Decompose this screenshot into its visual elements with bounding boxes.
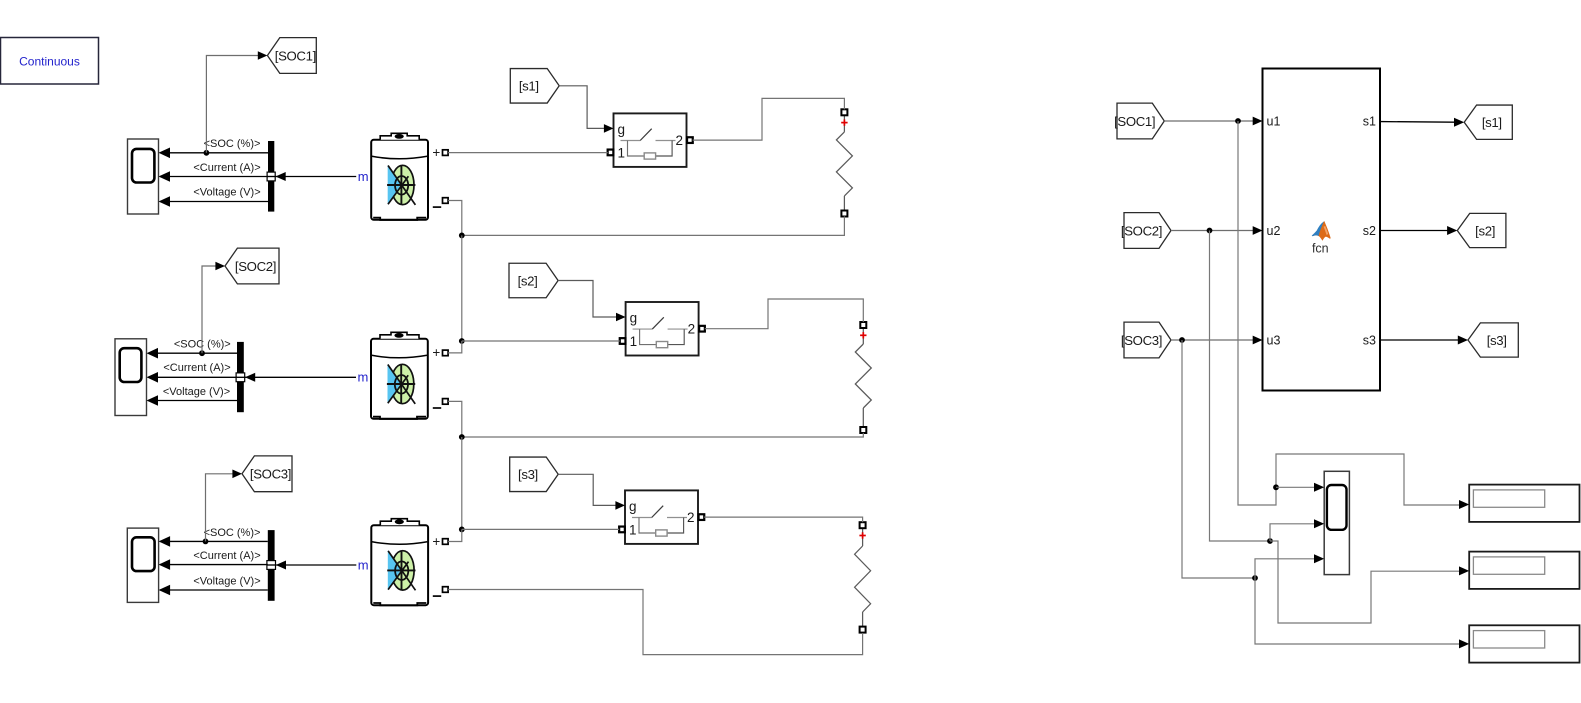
- junction on [SOC3] wire: [1179, 337, 1185, 343]
- port + (resistor R1 top): [841, 109, 847, 115]
- goto tag [SOC1]: [267, 38, 316, 74]
- wire: Battery2 - -> node C: [448, 401, 462, 437]
- scope Scope3: [127, 528, 158, 602]
- port + (resistor R2 top): [860, 322, 866, 328]
- scope Scope2: [115, 339, 147, 416]
- svg-text:<Current (A)>: <Current (A)>: [193, 550, 260, 562]
- junction: tap on SOC wire of group 3: [203, 539, 209, 545]
- svg-text:m: m: [358, 557, 369, 572]
- signal label <SOC (%)> on Scope2 in1: [174, 338, 231, 350]
- scope Scope4 (bottom right): [1324, 471, 1349, 574]
- wire: node F -> Scope4 in3: [1255, 554, 1324, 578]
- svg-text:[SOC3]: [SOC3]: [250, 467, 291, 482]
- pin s1 (fcn output 1): [1363, 115, 1376, 129]
- junction node B: [459, 338, 465, 344]
- wire: Battery1 - -> node A: [448, 201, 462, 236]
- junction: tap on SOC wire of group 2: [199, 350, 205, 356]
- pin g arrow (Breaker2): [616, 313, 626, 322]
- signal label <Current (A)> on Scope3 in2: [193, 550, 260, 562]
- svg-text:<Current (A)>: <Current (A)>: [193, 162, 260, 174]
- wire: [SOC3] junction -> node F: [1182, 340, 1255, 578]
- wire: [SOC2] junction -> node E: [1210, 231, 1271, 542]
- wire: Breaker2 port2 -> R2 top: [705, 299, 864, 329]
- from tag [s1]: [510, 69, 559, 104]
- svg-text:[s2]: [s2]: [1475, 223, 1495, 238]
- wire: from [SOC2] -> fcn u2: [1171, 226, 1263, 235]
- signal label <SOC (%)> on Scope3 in1: [204, 527, 261, 539]
- port - (Battery1): [433, 198, 448, 207]
- svg-text:m: m: [358, 370, 369, 385]
- scope Scope1: [128, 139, 159, 214]
- label m (Battery1 measurement port): [358, 169, 369, 184]
- wire: BusSelector3 out3 -> Scope3 in3: [159, 585, 268, 596]
- display block Display2: [1469, 552, 1579, 589]
- svg-text:s3: s3: [1363, 334, 1376, 348]
- wire: junction -> Scope4 in1: [1276, 483, 1324, 492]
- svg-text:+: +: [432, 345, 440, 360]
- label m (Battery3 measurement port): [358, 557, 369, 572]
- MATLAB logo (fcn icon): [1312, 221, 1331, 241]
- label fcn: [1312, 242, 1329, 256]
- goto tag [s2] (right): [1457, 213, 1506, 247]
- svg-text:[SOC2]: [SOC2]: [235, 259, 276, 274]
- signal label <Current (A)> on Scope1 in2: [193, 162, 260, 174]
- battery Battery1: [371, 133, 428, 220]
- port 2 (Breaker3): [699, 514, 705, 520]
- svg-text:[s1]: [s1]: [519, 79, 539, 94]
- wire: node A -> node B: [461, 235, 463, 341]
- port + (Battery2): [432, 345, 448, 360]
- goto tag [SOC3]: [242, 456, 292, 492]
- junction: Scope4 in1 tap: [1273, 484, 1279, 490]
- port 2 (Breaker1): [687, 137, 693, 143]
- signal label <Voltage (V)> on Scope3 in3: [193, 575, 260, 587]
- pin u1 (fcn input 1): [1267, 115, 1281, 129]
- resistor R3: [855, 528, 871, 627]
- svg-text:m: m: [358, 169, 369, 184]
- junction on [SOC1] wire: [1235, 118, 1241, 124]
- port (resistor R1 bottom): [841, 211, 847, 217]
- wire: from [s1] -> breaker Breaker1 g input: [559, 86, 605, 129]
- port + (Battery1): [432, 145, 448, 160]
- wire: [SOC1] junction -> Scope4 in1 / Display1: [1238, 121, 1469, 509]
- signal label <Current (A)> on Scope2 in2: [163, 362, 230, 374]
- wire: BusSelector1 out3 -> Scope1 in3: [159, 196, 269, 207]
- svg-text:s2: s2: [1363, 224, 1376, 238]
- wire: BusSelector1 out1 -> Scope1 in1: [159, 148, 269, 159]
- wire: BusSelector3 out2 -> Scope3 in2: [159, 559, 268, 570]
- wire: node F -> Display3: [1255, 578, 1469, 648]
- display block Display1: [1469, 485, 1579, 522]
- port - (Battery3): [433, 587, 448, 596]
- wire: BusSelector3 out1 -> Scope3 in1: [159, 536, 268, 547]
- polarity mark + (resistor R1): [841, 119, 847, 125]
- wire: BusSelector2 out3 -> Scope2 in3: [147, 395, 238, 406]
- bus selector BusSelector3 m input port: [267, 561, 276, 570]
- from tag [s3]: [510, 457, 559, 492]
- wire: Battery1 m port -> BusSelector1: [276, 172, 357, 181]
- wire: node D -> Breaker3 port1: [462, 528, 619, 530]
- wire: node E -> Scope4 in2: [1270, 519, 1324, 541]
- pin s3 (fcn output 3): [1363, 334, 1376, 348]
- svg-text:g: g: [618, 122, 626, 137]
- pin u2 (fcn input 2): [1267, 224, 1281, 238]
- pin g arrow (Breaker3): [615, 501, 625, 510]
- MATLAB Function block fcn: [1263, 69, 1381, 391]
- svg-text:[SOC1]: [SOC1]: [275, 48, 316, 63]
- wire: R2 bottom -> node C: [462, 433, 864, 437]
- wire: Battery2 m port -> BusSelector2: [245, 373, 356, 382]
- wire: junction -> goto [SOC1]: [206, 51, 267, 153]
- svg-text:1: 1: [618, 145, 626, 160]
- svg-text:[SOC1]: [SOC1]: [1114, 114, 1155, 129]
- wire: junction -> goto [SOC3]: [206, 470, 243, 542]
- battery Battery2: [371, 332, 428, 419]
- breaker switch Breaker3: [625, 490, 698, 544]
- wire: BusSelector2 out1 -> Scope2 in1: [147, 348, 238, 359]
- port (resistor R3 bottom): [860, 627, 866, 633]
- port + (Battery3): [432, 534, 448, 549]
- polarity mark + (resistor R2): [860, 332, 866, 338]
- junction node A: [459, 233, 465, 239]
- goto tag [s3] (right): [1468, 323, 1518, 357]
- wire: from [SOC3] -> fcn u3: [1171, 336, 1263, 345]
- wire: R3 bottom -> Battery3 -: [448, 590, 862, 655]
- svg-text:[s3]: [s3]: [518, 467, 538, 482]
- svg-text:[SOC2]: [SOC2]: [1121, 223, 1162, 238]
- junction node E: [1267, 538, 1273, 544]
- svg-text:u2: u2: [1267, 224, 1281, 238]
- wire: Breaker1 port2 -> R1 top: [693, 98, 845, 140]
- svg-text:u3: u3: [1267, 334, 1281, 348]
- port (resistor R2 bottom): [860, 427, 866, 433]
- svg-text:<Current (A)>: <Current (A)>: [163, 362, 230, 374]
- svg-text:u1: u1: [1267, 115, 1281, 129]
- port 2 (Breaker2): [699, 326, 705, 332]
- wire: Battery3 m port -> BusSelector3: [276, 561, 357, 570]
- wire: node D -> Battery3 +: [448, 529, 462, 541]
- bus selector BusSelector1 m input port: [267, 172, 276, 181]
- port 1 (Breaker3): [619, 527, 625, 533]
- resistor R2: [855, 328, 871, 427]
- wire: from [SOC1] -> fcn u1: [1164, 117, 1262, 126]
- bus selector BusSelector1: [268, 141, 274, 212]
- from tag [SOC3] (right): [1121, 322, 1171, 358]
- signal label <Voltage (V)> on Scope1 in3: [193, 186, 260, 198]
- wire: fcn s3 -> goto [s3]: [1380, 336, 1468, 345]
- signal label <Voltage (V)> on Scope2 in3: [163, 386, 230, 398]
- port 1 (Breaker2): [620, 338, 626, 344]
- from tag [s2]: [509, 263, 558, 298]
- pin u3 (fcn input 3): [1267, 334, 1281, 348]
- svg-text:2: 2: [676, 133, 684, 148]
- svg-text:g: g: [630, 311, 638, 326]
- wire: node B -> Battery2 +: [448, 341, 462, 353]
- wire: fcn s2 -> goto [s2]: [1380, 226, 1457, 235]
- svg-text:+: +: [432, 145, 440, 160]
- pin g arrow (Breaker1): [604, 124, 614, 133]
- svg-text:<Voltage (V)>: <Voltage (V)>: [193, 186, 260, 198]
- signal label <SOC (%)> on Scope1 in1: [204, 138, 261, 150]
- wire: Breaker3 port2 -> R3 top: [704, 517, 863, 522]
- svg-text:fcn: fcn: [1312, 242, 1329, 256]
- wire: from [s2] -> breaker Breaker2 g input: [558, 281, 617, 318]
- wire: from [s3] -> breaker Breaker3 g input: [558, 474, 616, 505]
- svg-text:[SOC3]: [SOC3]: [1121, 333, 1162, 348]
- junction: tap on SOC wire of group 1: [204, 150, 210, 156]
- svg-text:+: +: [432, 534, 440, 549]
- polarity mark + (resistor R3): [859, 532, 865, 538]
- bus selector BusSelector2: [237, 342, 244, 412]
- junction on [SOC2] wire: [1207, 228, 1213, 234]
- breaker switch Breaker2: [626, 302, 699, 356]
- from tag [SOC2] (right): [1121, 213, 1171, 249]
- label m (Battery2 measurement port): [358, 370, 369, 385]
- junction node F: [1252, 575, 1258, 581]
- svg-text:[s1]: [s1]: [1482, 115, 1502, 130]
- port 1 (Breaker1): [608, 150, 614, 156]
- svg-text:2: 2: [687, 510, 695, 525]
- wire: fcn s1 -> goto [s1]: [1380, 118, 1464, 127]
- svg-text:g: g: [629, 499, 637, 514]
- wire: node C -> node D: [461, 437, 463, 529]
- goto tag [s1] (right): [1464, 105, 1512, 139]
- wire: Battery1 + -> Breaker1 port1: [448, 152, 608, 154]
- from tag [SOC1] (right): [1114, 103, 1164, 139]
- bus selector BusSelector2 m input port: [236, 373, 245, 382]
- svg-text:[s2]: [s2]: [518, 273, 538, 288]
- svg-text:<Voltage (V)>: <Voltage (V)>: [163, 386, 230, 398]
- junction node D: [459, 527, 465, 533]
- port - (Battery2): [433, 399, 448, 408]
- battery Battery3: [371, 519, 428, 606]
- wire: BusSelector2 out2 -> Scope2 in2: [147, 372, 238, 383]
- resistor R1: [836, 115, 852, 210]
- powergui block Continuous: [1, 38, 99, 85]
- svg-text:1: 1: [630, 334, 638, 349]
- wire: node B -> Breaker2 port1: [462, 340, 620, 342]
- port + (resistor R3 top): [860, 522, 866, 528]
- svg-text:s1: s1: [1363, 115, 1376, 129]
- breaker switch Breaker1: [614, 113, 687, 166]
- pin s2 (fcn output 2): [1363, 224, 1376, 238]
- wire: node E -> Display2: [1270, 541, 1469, 623]
- svg-text:Continuous: Continuous: [19, 55, 80, 69]
- svg-text:[s3]: [s3]: [1487, 333, 1507, 348]
- svg-text:<SOC (%)>: <SOC (%)>: [204, 138, 261, 150]
- wire: BusSelector1 out2 -> Scope1 in2: [159, 171, 269, 182]
- wire: junction -> goto [SOC2]: [202, 262, 225, 354]
- bus selector BusSelector3: [268, 530, 275, 601]
- svg-text:<Voltage (V)>: <Voltage (V)>: [193, 575, 260, 587]
- display block Display3: [1469, 625, 1579, 662]
- svg-text:1: 1: [629, 522, 637, 537]
- svg-text:<SOC (%)>: <SOC (%)>: [204, 527, 261, 539]
- goto tag [SOC2]: [225, 248, 279, 284]
- junction node C: [459, 434, 465, 440]
- wire: R1 bottom -> node A: [462, 216, 845, 235]
- svg-text:2: 2: [688, 322, 696, 337]
